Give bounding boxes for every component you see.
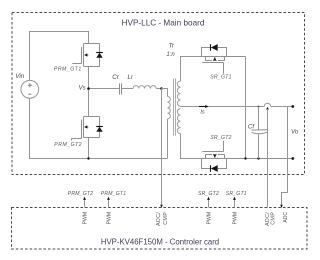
svg-text:CMP: CMP [163, 212, 169, 225]
svg-text:ADC: ADC [283, 212, 289, 223]
wire Vo sense (ADC) with jog [282, 107, 288, 207]
controller card dashed box [12, 208, 308, 250]
wire Cr to Lr [122, 88, 134, 90]
svg-text:Vs: Vs [79, 86, 86, 92]
svg-text:HVP-LLC - Main board: HVP-LLC - Main board [122, 19, 205, 28]
svg-text:SR_GT2: SR_GT2 [210, 135, 232, 141]
pin PRM_GT1 (PWM) [108, 199, 110, 208]
transformer Tr primary winding [168, 97, 171, 119]
svg-text:Vo: Vo [291, 129, 299, 136]
wire sense line node A to controller (ADC/CMP) [161, 89, 163, 207]
SR2 body diode loop [202, 159, 211, 169]
svg-text:PRM_GT2: PRM_GT2 [68, 191, 93, 197]
wire secondary center tap (output rail) [181, 106, 265, 108]
pin SR_GT1 (PWM) [234, 199, 236, 208]
wire hop over sense line [264, 103, 271, 106]
wire Vin- down to bottom rail [30, 98, 168, 158]
output terminal dots Vo [291, 105, 294, 108]
transformer core [173, 79, 175, 136]
wire Q2 source to bottom rail [88, 138, 90, 159]
pin SR_GT2 (PWM) [208, 199, 210, 208]
body diode D1 [96, 52, 103, 54]
transistor Q4 SR_GT2 (sync rect bottom) [202, 141, 293, 159]
pin PRM_GT2 (PWM) [84, 199, 86, 208]
wire SR1 drain down to minus rail [245, 57, 247, 159]
node Vs [87, 87, 90, 90]
wire sense line Vo rail to controller (ADC/CMP) with probe arrow [266, 107, 269, 110]
svg-text:PWM: PWM [107, 212, 113, 224]
svg-text:Tr: Tr [169, 43, 175, 50]
wire node A to primary top [162, 89, 168, 97]
main board dashed box [12, 13, 305, 175]
svg-text:PRM_GT1: PRM_GT1 [54, 67, 82, 73]
svg-text:PWM: PWM [233, 212, 239, 224]
svg-text:Lr: Lr [127, 74, 133, 81]
svg-text:PWM: PWM [207, 212, 213, 224]
wire primary bottom to rail [167, 119, 169, 159]
capacitor Cr [120, 84, 122, 95]
current arrow Is [199, 106, 206, 108]
voltage source Vin [21, 80, 39, 98]
transistor Q1 PRM_GT1 (high side MOSFET) [72, 44, 99, 67]
svg-text:CMP: CMP [271, 212, 277, 225]
svg-text:SR_GT1: SR_GT1 [210, 75, 232, 81]
SR1 body diode loop [202, 48, 211, 57]
svg-text:SR_GT2: SR_GT2 [198, 191, 219, 197]
svg-text:PRM_GT2: PRM_GT2 [54, 142, 82, 148]
capacitor Cf [258, 107, 260, 131]
wire top rail Vin+ to Q1 drain [30, 32, 89, 81]
svg-text:ADC/: ADC/ [156, 212, 162, 226]
transformer Tr secondary upper winding [177, 81, 180, 106]
svg-text:Vin: Vin [15, 73, 25, 80]
wire Q1 source to Q2 drain (Vs node) [88, 67, 90, 117]
transistor Q2 PRM_GT2 (low side MOSFET) [72, 117, 100, 141]
svg-text:Cr: Cr [112, 74, 119, 81]
node A junction dot (Lr / primary) [160, 87, 163, 90]
wire secondary top to SR1 [181, 57, 202, 82]
body diode D2 [96, 126, 103, 128]
svg-text:PRM_GT1: PRM_GT1 [101, 191, 126, 197]
svg-text:PWM: PWM [83, 212, 89, 224]
svg-text:1:n: 1:n [166, 52, 175, 58]
svg-text:SR_GT1: SR_GT1 [226, 191, 247, 197]
svg-text:HVP-KV46F150M - Controler card: HVP-KV46F150M - Controler card [101, 238, 219, 247]
junction dot bottom rail [87, 157, 89, 159]
transistor Q3 SR_GT1 (sync rect top) [202, 57, 246, 74]
wire Vs to Cr [89, 88, 120, 90]
transformer Tr secondary lower winding [177, 109, 180, 134]
junction dots output rails [244, 157, 246, 159]
inductor Lr [133, 86, 156, 89]
wire Lr to node A [156, 88, 161, 90]
svg-text:Is: Is [200, 110, 205, 116]
wire secondary bottom to SR2 [181, 134, 202, 159]
